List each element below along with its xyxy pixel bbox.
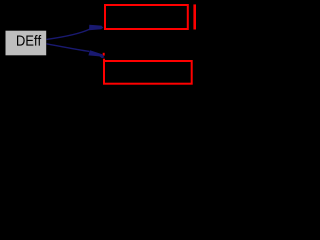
arrowhead of edge DEff->node2 — [88, 50, 104, 58]
node DEff (current node, grey filled) — [5, 30, 47, 56]
arrowhead of edge DEff->node1 — [89, 25, 103, 31]
red border patch above node2 corner — [103, 59, 105, 62]
background — [0, 0, 196, 88]
node1 (truncated node, red border, top right) — [105, 5, 188, 29]
red stub above node2 top-left corner — [103, 53, 105, 56]
edge DEff->node2 (wire) — [47, 44, 90, 52]
node2 (truncated node, red border, bottom right) — [104, 61, 192, 84]
clipped node fragment at right image edge — [193, 4, 196, 29]
edge DEff->node1 (wire) — [47, 29, 90, 39]
